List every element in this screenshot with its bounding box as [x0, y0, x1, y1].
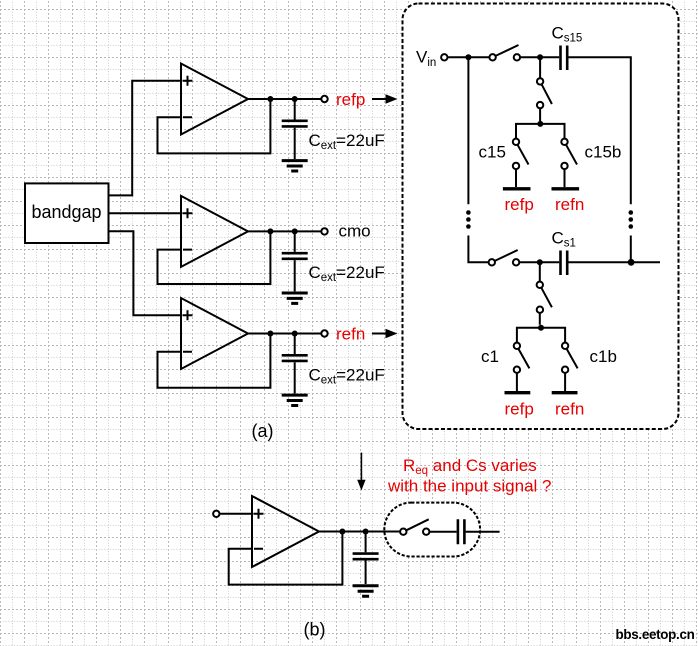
node Cs15 left plate [537, 54, 543, 60]
wire U3 output [248, 333, 321, 335]
ground U1 [282, 161, 308, 171]
ground refp (c15) [503, 187, 531, 190]
svg-text:c15: c15 [479, 143, 506, 162]
op-amp U3 [181, 298, 248, 369]
node U1 output junction [267, 96, 273, 102]
op-amp U2 [181, 196, 248, 267]
wire T1 [517, 328, 565, 345]
capacitor Cext U1 [282, 99, 308, 159]
terminal U4 input [213, 511, 219, 517]
dots right rail (continuation) [629, 210, 634, 229]
wire right rail lower [630, 236, 632, 263]
ground refn (c15b) [552, 187, 580, 190]
ground refp (c1) [505, 391, 531, 394]
ground U2 [282, 293, 308, 303]
svg-text:bandgap: bandgap [31, 202, 101, 222]
wire U4 feedback [229, 532, 343, 585]
svg-text:refp: refp [505, 399, 534, 418]
wire bandgap to U2 + input [109, 212, 181, 214]
op-amp U4 [252, 496, 319, 567]
node U4 cap junction [363, 529, 369, 535]
switch c1b [562, 343, 578, 373]
wire U2 output [248, 230, 321, 232]
node U3 cap junction [292, 331, 298, 337]
ground refn (c1b) [552, 391, 578, 394]
capacitor U4 [353, 532, 379, 585]
node Cs1 left plate [537, 259, 543, 265]
svg-text:refn: refn [555, 195, 584, 214]
wire U4 input [220, 513, 253, 515]
terminal Vin [441, 54, 447, 60]
svg-text:c15b: c15b [585, 143, 622, 162]
wire c1b to ground [564, 373, 566, 391]
wire c15b to ground [564, 169, 566, 187]
arrow down (a to b) [357, 453, 365, 491]
wire T15 [516, 124, 565, 141]
terminal cmo [321, 228, 327, 234]
capacitor Cext U2 [282, 231, 308, 291]
switch S1 (input, Cs1 row) [489, 250, 520, 265]
node Cs1 right rail junction [628, 259, 635, 266]
terminal refn [321, 330, 327, 336]
wire U4 output [319, 531, 400, 533]
svg-text:(a): (a) [252, 421, 274, 441]
wire Cs15 to right rail [569, 57, 631, 204]
svg-text:with the input signal ?: with the input signal ? [387, 477, 552, 496]
wire Cs1 to right [569, 261, 661, 263]
svg-text:refp: refp [505, 195, 534, 214]
wire c15 to ground [515, 169, 517, 187]
svg-text:c1b: c1b [590, 347, 617, 366]
arrow refn [372, 329, 398, 338]
wire U1 feedback [158, 99, 271, 153]
svg-text:refn: refn [336, 324, 365, 343]
svg-text:bbs.eetop.cn: bbs.eetop.cn [616, 627, 695, 642]
switch phi1 (vertical, below Cs1 left plate) [537, 262, 552, 324]
capacitor Cext U3 [282, 334, 308, 394]
switch S15 (input, top row) [489, 45, 520, 61]
terminal refp [321, 96, 327, 102]
wire switch to Cs1 [519, 261, 559, 263]
wire U2 feedback [158, 231, 271, 284]
wire switch to Cs15 [520, 56, 559, 58]
ground U4 [353, 586, 379, 596]
capacitor Cs15 [561, 46, 568, 71]
node U4 output junction [339, 529, 345, 535]
capacitor Cs in oval [458, 519, 465, 544]
svg-text:cmo: cmo [339, 222, 371, 241]
op-amp U1 [181, 64, 248, 135]
wire bandgap to U3 + input [109, 231, 181, 315]
node U3 output junction [267, 331, 273, 337]
svg-text:(b): (b) [304, 620, 326, 640]
svg-text:c1: c1 [481, 347, 499, 366]
wire left rail lower [468, 236, 488, 263]
svg-text:Cext=22uF: Cext=22uF [309, 263, 385, 284]
dashed box (switched-cap bank) [403, 4, 679, 430]
switch c1 [514, 343, 530, 373]
bandgap box [25, 183, 109, 243]
wire cap out of oval [466, 531, 500, 533]
switch phi15 (vertical, below Cs15 left plate) [537, 57, 552, 121]
svg-text:refn: refn [555, 399, 584, 418]
node U2 output junction [267, 228, 273, 234]
node Vin junction [465, 54, 471, 60]
node U1 cap junction [292, 96, 298, 102]
dots left rail (continuation) [466, 210, 471, 229]
node phi1 junction [538, 325, 544, 331]
capacitor Cs1 [561, 251, 568, 276]
arrow refp [372, 94, 398, 103]
svg-text:refp: refp [336, 90, 365, 109]
wire left rail [467, 57, 469, 204]
node phi15 junction [537, 121, 543, 127]
wire U1 output [248, 98, 321, 100]
wire U3 feedback [158, 334, 271, 388]
wire Vin to node [448, 56, 490, 58]
node U2 cap junction [292, 228, 298, 234]
svg-text:Cext=22uF: Cext=22uF [309, 365, 385, 386]
ground U3 [282, 395, 308, 405]
dashed oval (Req Cs question) [384, 503, 480, 557]
svg-text:Cext=22uF: Cext=22uF [309, 131, 385, 152]
wire switch to cap in oval [429, 531, 456, 533]
wire c1 to ground [516, 373, 518, 391]
switch in oval [400, 519, 429, 535]
wire bandgap to U1 + input [109, 81, 181, 196]
switch c15b [561, 139, 577, 169]
switch c15 [513, 139, 529, 169]
